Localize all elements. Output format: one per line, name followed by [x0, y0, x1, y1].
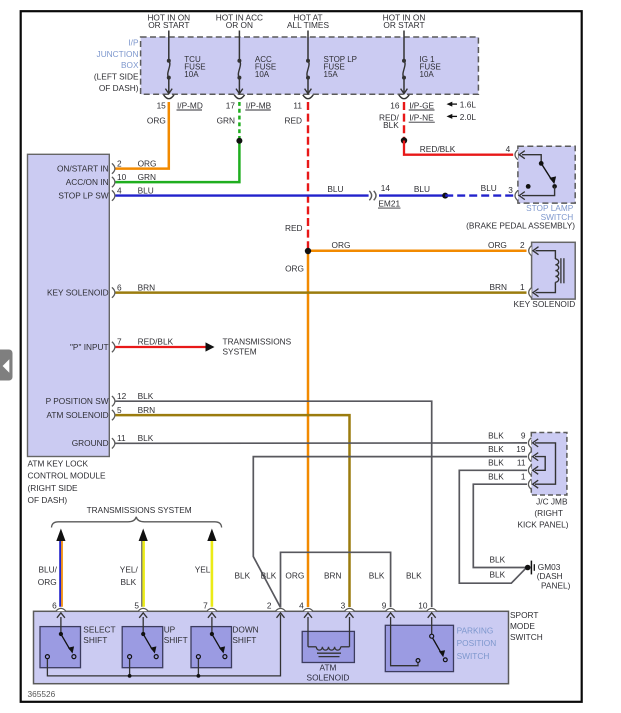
module pin 12 P POSITION SW	[46, 391, 154, 407]
svg-text:6: 6	[117, 282, 122, 292]
svg-text:5: 5	[134, 601, 139, 611]
parking position switch	[385, 617, 453, 672]
wire BLK: J/C JMB pin 11 to GM03	[459, 470, 527, 583]
svg-text:RED/BLK: RED/BLK	[420, 144, 456, 154]
svg-text:BLK: BLK	[235, 571, 251, 581]
down shift stub to rail	[197, 659, 199, 676]
sport mode switch pin 4	[299, 601, 313, 618]
svg-text:BLU: BLU	[414, 184, 430, 194]
svg-text:BLU/: BLU/	[38, 564, 57, 574]
svg-text:1: 1	[520, 282, 525, 292]
svg-text:1.6L: 1.6L	[460, 100, 477, 110]
ATM key lock control module U1	[28, 154, 110, 456]
connector cup below fuse IG 1	[399, 95, 409, 99]
svg-text:SPORT: SPORT	[510, 610, 538, 620]
svg-text:RED/BLK: RED/BLK	[138, 337, 174, 347]
fuse STOP LP value label	[324, 55, 358, 79]
svg-text:"P" INPUT: "P" INPUT	[70, 342, 109, 352]
select shift switch	[40, 617, 116, 668]
in-line connector EM21	[369, 183, 400, 209]
module caption	[28, 458, 107, 505]
wire BLU: EM21 to splice	[379, 194, 445, 196]
sport mode switch pin 2	[267, 601, 286, 618]
wire BLU dashed to stop lamp switch pin 3	[445, 194, 513, 196]
svg-text:ATM: ATM	[320, 663, 337, 673]
wire ORG: splice down to sport mode switch pin 4	[307, 251, 310, 607]
sport mode switch pin 9	[382, 601, 396, 618]
svg-text:UP: UP	[164, 625, 176, 635]
svg-text:EM21: EM21	[378, 199, 400, 209]
svg-text:10: 10	[117, 172, 127, 182]
wire BLU/ORG: select shift to transmissions system	[38, 529, 66, 607]
svg-text:SHIFT: SHIFT	[164, 635, 188, 645]
svg-text:11: 11	[517, 458, 526, 468]
J/C JMB pin 9	[488, 430, 538, 448]
module pin 5 ATM SOLENOID	[47, 405, 156, 421]
svg-text:BRN: BRN	[324, 571, 342, 581]
svg-text:(RIGHT: (RIGHT	[534, 508, 563, 518]
key solenoid coil	[536, 251, 564, 293]
svg-text:SWITCH: SWITCH	[510, 632, 543, 642]
svg-text:ATM SOLENOID: ATM SOLENOID	[47, 410, 109, 420]
svg-text:BLK: BLK	[490, 555, 506, 565]
wire BRN: module pin 5 to sport mode switch pin 3	[116, 415, 350, 607]
svg-text:365526: 365526	[28, 689, 56, 699]
svg-text:6: 6	[52, 601, 57, 611]
svg-text:2: 2	[267, 601, 272, 611]
svg-text:7: 7	[203, 601, 208, 611]
svg-text:3: 3	[341, 601, 346, 611]
sport mode switch caption	[510, 610, 543, 642]
svg-text:CONTROL MODULE: CONTROL MODULE	[28, 471, 107, 481]
wire BLK: J/C JMB pin 1 to GM03	[473, 484, 527, 567]
svg-text:5: 5	[117, 405, 122, 415]
wire ORG: TCU fuse to module pin 2	[116, 102, 169, 169]
key solenoid pin 1	[520, 282, 539, 298]
svg-text:BLU: BLU	[481, 183, 497, 193]
key solenoid pin 2	[520, 240, 539, 256]
ATM solenoid L1	[302, 617, 354, 663]
fuse STOP LP 15A feed label	[287, 13, 329, 31]
wire BLK: J/C JMB pin 19 down-left to sport mode switch pin 2	[253, 457, 527, 608]
svg-text:GRN: GRN	[138, 172, 156, 182]
splice node on GRN wire	[236, 138, 242, 144]
svg-text:2: 2	[117, 158, 122, 168]
wire color labels above sport mode switch	[235, 571, 423, 581]
svg-text:RED: RED	[285, 223, 303, 233]
module pin 2 ON/START IN	[57, 158, 157, 173]
svg-text:I/P-NE: I/P-NE	[409, 113, 434, 123]
pin 15 label and wire name I/P-MD	[147, 100, 203, 125]
svg-text:BLK: BLK	[488, 458, 504, 468]
svg-text:SHIFT: SHIFT	[83, 635, 107, 645]
svg-text:ORG: ORG	[332, 240, 351, 250]
fuse TCU value label	[184, 55, 205, 79]
fuse TCU 10A symbol	[165, 31, 172, 94]
connector cup below fuse STOP LP	[303, 95, 313, 99]
wire ORG: splice to key solenoid pin 2	[308, 249, 527, 252]
svg-text:BRN: BRN	[489, 282, 507, 292]
I/P junction box (dashed)	[141, 37, 479, 94]
brace over shift outputs	[52, 517, 222, 528]
J/C JMB pin 11	[488, 458, 538, 476]
wire BLK: module pin 11 ground to J/C JMB pin 9	[116, 442, 528, 444]
module pin 10 ACC/ON IN	[66, 172, 156, 187]
svg-text:J/C JMB: J/C JMB	[536, 496, 568, 506]
svg-text:10A: 10A	[255, 70, 270, 79]
fuse TCU 10A feed label	[147, 13, 190, 31]
svg-text:OR START: OR START	[148, 20, 189, 30]
svg-text:15: 15	[157, 100, 167, 110]
svg-text:ORG: ORG	[38, 577, 57, 587]
wire RED/BLK: module pin 7 to transmissions system arrow	[116, 346, 207, 348]
wire GRN dashed segment from ACC fuse	[238, 102, 241, 141]
svg-text:OR START: OR START	[383, 20, 424, 30]
wire GRN solid to module pin 10	[116, 141, 240, 182]
wire BRN: module pin 6 to key solenoid pin 1	[116, 291, 527, 294]
svg-text:GROUND: GROUND	[72, 438, 109, 448]
stop lamp switch caption	[466, 203, 575, 231]
fuse IG 1 value label	[420, 55, 441, 79]
svg-text:SHIFT: SHIFT	[232, 635, 256, 645]
svg-text:ORG: ORG	[285, 571, 304, 581]
svg-text:GRN: GRN	[217, 116, 235, 126]
sport mode switch pin 10	[418, 601, 437, 618]
wire RED/BLK dashed from IG1 fuse	[403, 102, 405, 138]
svg-text:BLK: BLK	[369, 571, 385, 581]
svg-text:ORG: ORG	[285, 263, 304, 273]
wire YEL: down shift to transmissions system	[195, 529, 217, 607]
svg-text:YEL/: YEL/	[120, 564, 139, 574]
sidebar collapse tab	[0, 350, 13, 381]
svg-text:15A: 15A	[324, 70, 339, 79]
svg-text:10A: 10A	[184, 70, 199, 79]
sport mode switch pin 5	[134, 601, 148, 618]
svg-text:P POSITION SW: P POSITION SW	[46, 396, 109, 406]
svg-text:12: 12	[117, 391, 127, 401]
svg-text:2: 2	[520, 240, 525, 250]
svg-text:10A: 10A	[420, 70, 435, 79]
svg-text:OR ON: OR ON	[226, 20, 253, 30]
pin 16 label, wire names I/P-GE / I/P-NE with 1.6L / 2.0L arrows	[379, 100, 476, 130]
module pin 11 GROUND	[72, 433, 154, 449]
wire YEL/BLK: up shift to transmissions system	[120, 529, 148, 607]
module pin 7 &quot;P&quot; INPUT	[70, 337, 174, 352]
svg-text:ACC/ON IN: ACC/ON IN	[66, 177, 109, 187]
svg-text:TRANSMISSIONS SYSTEM: TRANSMISSIONS SYSTEM	[87, 505, 192, 515]
svg-text:BLK: BLK	[490, 569, 506, 579]
fuse IG 1 10A feed label	[383, 13, 426, 31]
svg-text:SYSTEM: SYSTEM	[223, 347, 257, 357]
svg-text:I/P-MD: I/P-MD	[177, 100, 203, 110]
svg-text:BLK: BLK	[488, 430, 504, 440]
wire BLK: module pin 12 to sport mode switch pin 10	[116, 401, 432, 607]
stop lamp switch internal contacts	[522, 155, 557, 196]
svg-text:PARKING: PARKING	[457, 625, 494, 635]
svg-text:MODE: MODE	[510, 621, 535, 631]
svg-text:DOWN: DOWN	[232, 625, 258, 635]
svg-text:TRANSMISSIONS: TRANSMISSIONS	[223, 336, 292, 346]
svg-text:PANEL): PANEL)	[541, 580, 571, 590]
svg-text:JUNCTION: JUNCTION	[97, 49, 139, 59]
up shift switch	[122, 617, 187, 668]
svg-text:BLK: BLK	[138, 391, 154, 401]
J/C JMB pin 19	[488, 444, 538, 462]
svg-text:3: 3	[508, 185, 513, 195]
svg-text:BLK: BLK	[138, 433, 154, 443]
wire RED dashed: STOP LP fuse down to splice	[307, 102, 309, 251]
J/C JMB pin 1	[488, 472, 538, 490]
svg-text:POSITION: POSITION	[457, 638, 497, 648]
svg-text:1: 1	[521, 472, 526, 482]
J/C JMB internal strap 19-11	[535, 457, 545, 471]
fuse STOP LP 15A symbol	[305, 31, 312, 94]
svg-text:I/P-MB: I/P-MB	[246, 100, 272, 110]
svg-text:10: 10	[418, 601, 428, 611]
sport mode switch pin 3	[341, 601, 355, 618]
sport mode switch pin 7	[203, 601, 217, 618]
svg-text:BLK: BLK	[406, 571, 422, 581]
svg-text:(BRAKE PEDAL ASSEMBLY): (BRAKE PEDAL ASSEMBLY)	[466, 221, 575, 231]
pin 11 label	[284, 100, 302, 125]
common rail: select shift to pin 2	[47, 615, 280, 676]
svg-text:ON/START IN: ON/START IN	[57, 164, 109, 174]
svg-text:BRN: BRN	[138, 282, 156, 292]
svg-text:SWITCH: SWITCH	[457, 651, 490, 661]
svg-text:BLK: BLK	[488, 444, 504, 454]
arrow to transmissions system	[206, 342, 215, 351]
sport mode switch assembly	[34, 611, 509, 683]
splice node RED/ORG	[305, 248, 311, 254]
svg-text:KICK PANEL): KICK PANEL)	[517, 520, 568, 530]
svg-text:YEL: YEL	[195, 564, 211, 574]
svg-text:ORG: ORG	[138, 158, 157, 168]
svg-text:11: 11	[293, 100, 302, 110]
stop lamp switch (dashed box)	[518, 146, 575, 203]
parking position switch caption	[457, 625, 497, 661]
module pin 6 KEY SOLENOID	[47, 282, 155, 298]
stop lamp switch pin 3	[508, 185, 525, 201]
svg-text:BLK: BLK	[261, 571, 277, 581]
up shift stub to rail	[129, 659, 131, 676]
down shift switch	[191, 617, 259, 668]
wire RED/BLK to stop lamp switch pin 4	[404, 141, 513, 155]
connector cup below fuse TCU	[164, 95, 174, 99]
fuse IG 1 10A symbol	[401, 31, 408, 94]
I/P junction box label	[94, 38, 139, 93]
connector cup below fuse ACC	[234, 95, 244, 99]
fuse ACC 10A symbol	[236, 31, 243, 94]
svg-text:BOX: BOX	[121, 60, 139, 70]
svg-text:OF DASH): OF DASH)	[99, 83, 139, 93]
svg-text:2.0L: 2.0L	[460, 112, 477, 122]
splice node on RED/BLK	[401, 137, 407, 143]
svg-text:SOLENOID: SOLENOID	[307, 672, 350, 682]
fuse ACC value label	[255, 55, 276, 79]
svg-text:ORG: ORG	[488, 240, 507, 250]
svg-text:14: 14	[381, 183, 391, 193]
J/C JMB junction block (dashed)	[531, 433, 567, 496]
jumper wire pin 2 to pin 9	[281, 552, 391, 607]
svg-text:KEY SOLENOID: KEY SOLENOID	[47, 288, 109, 298]
key solenoid	[532, 242, 576, 299]
svg-text:4: 4	[506, 144, 511, 154]
svg-text:BLU: BLU	[327, 184, 343, 194]
svg-text:19: 19	[516, 444, 526, 454]
svg-text:ORG: ORG	[147, 116, 166, 126]
sport mode switch pin 6	[52, 601, 66, 618]
svg-text:7: 7	[117, 337, 122, 347]
svg-text:STOP LP SW: STOP LP SW	[58, 191, 108, 201]
svg-text:(RIGHT SIDE: (RIGHT SIDE	[28, 483, 79, 493]
wire BLU: module pin 4 to EM21	[116, 194, 369, 196]
pin 17 label and wire name I/P-MB	[217, 100, 272, 125]
svg-text:BLK: BLK	[121, 577, 137, 587]
svg-text:ATM KEY LOCK: ATM KEY LOCK	[28, 458, 89, 468]
svg-text:4: 4	[117, 185, 122, 195]
svg-text:4: 4	[299, 601, 304, 611]
svg-text:ALL TIMES: ALL TIMES	[287, 20, 329, 30]
svg-text:(LEFT SIDE: (LEFT SIDE	[94, 72, 139, 82]
svg-text:9: 9	[521, 430, 526, 440]
svg-text:17: 17	[226, 100, 236, 110]
svg-text:9: 9	[382, 601, 387, 611]
svg-text:BRN: BRN	[138, 405, 156, 415]
svg-text:KEY SOLENOID: KEY SOLENOID	[514, 299, 576, 309]
J/C JMB internal strap 9-1	[535, 443, 556, 484]
stop lamp switch pin 4	[506, 144, 525, 160]
svg-text:16: 16	[390, 100, 400, 110]
svg-text:BLU: BLU	[138, 185, 154, 195]
ground point GM03	[525, 561, 534, 575]
fuse ACC 10A feed label	[216, 13, 263, 31]
module pin 4 STOP LP SW	[58, 185, 153, 200]
svg-text:SELECT: SELECT	[83, 625, 115, 635]
svg-text:BLK: BLK	[488, 472, 504, 482]
J/C JMB caption	[517, 496, 568, 529]
ATM solenoid caption	[307, 663, 350, 683]
svg-text:I/P-GE: I/P-GE	[409, 100, 434, 110]
svg-text:BLK: BLK	[383, 120, 399, 130]
svg-text:11: 11	[117, 433, 126, 443]
svg-text:OF DASH): OF DASH)	[28, 495, 68, 505]
svg-text:I/P: I/P	[128, 38, 139, 48]
GM03 caption	[537, 562, 571, 591]
splice node on BLU	[442, 193, 448, 199]
svg-text:RED: RED	[284, 116, 302, 126]
